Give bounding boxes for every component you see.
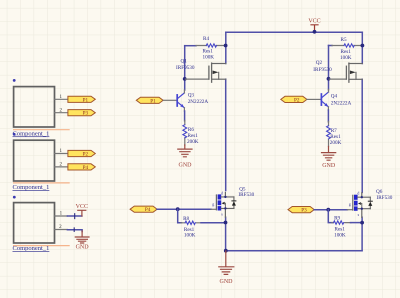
wire right vertical upper [361, 32, 363, 63]
wire U3 pin2 to GND [67, 230, 82, 232]
ground GND (U3) [75, 231, 89, 251]
wire left vertical lower [225, 217, 227, 251]
transistor Q4 [307, 90, 352, 111]
resistor R8 [181, 216, 202, 239]
wire left vertical mid [225, 79, 227, 190]
resistor R7 [327, 122, 342, 147]
resistor R6 [183, 121, 199, 146]
junction R4-right [224, 44, 228, 48]
junction R9-right [360, 221, 364, 225]
wire left vertical upper [225, 32, 227, 63]
wire R8 branch [178, 209, 182, 223]
svg-text:IRF530: IRF530 [238, 192, 254, 198]
svg-text:GND: GND [220, 279, 234, 285]
svg-text:d: d [357, 191, 359, 196]
wire Q4 collector column [328, 46, 330, 90]
ground GND (bottom) [219, 249, 234, 285]
svg-text:200K: 200K [187, 139, 199, 145]
junction R5-right [361, 44, 365, 48]
wire U3 pin1 to VCC [67, 215, 82, 217]
svg-text:Component_1: Component_1 [13, 184, 50, 191]
svg-text:Q4: Q4 [331, 94, 338, 100]
svg-text:g: g [349, 202, 351, 207]
transistor Q6 [347, 189, 392, 218]
svg-text:100K: 100K [184, 233, 196, 239]
wire Q4 emitter [327, 110, 329, 122]
pin end tick 1 [74, 214, 76, 219]
svg-text:VCC: VCC [308, 19, 320, 25]
svg-text:P1: P1 [150, 98, 156, 104]
svg-text:P2: P2 [294, 97, 300, 103]
wire bottom rail [226, 250, 362, 252]
svg-text:100K: 100K [340, 55, 352, 61]
svg-text:P3: P3 [83, 111, 89, 117]
wire Q3 emitter [184, 111, 186, 121]
transistor Q1 [176, 58, 226, 82]
component U2 box [13, 133, 70, 191]
wire P4 to gate [157, 208, 211, 210]
power port VCC top [308, 19, 320, 34]
svg-text:IRF9530: IRF9530 [176, 65, 195, 71]
transistor Q2 [313, 60, 362, 82]
svg-text:R9: R9 [334, 216, 340, 222]
svg-text:IRF9530: IRF9530 [313, 67, 332, 73]
svg-text:100K: 100K [203, 54, 215, 60]
resistor R4 [185, 36, 226, 60]
svg-text:R8: R8 [183, 216, 189, 222]
component U1 box [13, 79, 70, 137]
junction P4 [176, 207, 180, 211]
svg-text:100K: 100K [334, 232, 346, 238]
pin end tick 2 [73, 228, 75, 232]
svg-text:Q1: Q1 [181, 58, 188, 64]
port P3 [288, 207, 314, 214]
svg-text:Component_1: Component_1 [13, 245, 50, 252]
wire top rail [226, 31, 362, 33]
svg-text:Q2: Q2 [316, 60, 323, 66]
svg-text:P2: P2 [83, 152, 89, 158]
wire right vertical mid [361, 79, 363, 192]
resistor R9 [332, 216, 351, 239]
ground GND (R6) [178, 145, 192, 169]
svg-text:P1: P1 [83, 97, 89, 103]
svg-text:P3: P3 [301, 208, 307, 214]
component U3 box [13, 196, 70, 252]
svg-text:Q3: Q3 [188, 92, 195, 98]
junction Q2 gate [327, 77, 331, 81]
svg-text:d: d [221, 190, 223, 195]
svg-text:R5: R5 [341, 37, 347, 43]
junction P3 [326, 208, 330, 212]
svg-text:200K: 200K [330, 140, 342, 146]
junction Q1 gate [183, 77, 187, 81]
svg-text:GND: GND [322, 163, 336, 169]
svg-text:GND: GND [179, 163, 193, 169]
power port VCC (U3) [76, 204, 88, 216]
svg-text:P4: P4 [83, 165, 89, 171]
wire R8 to source column [201, 222, 226, 224]
svg-text:Component_1: Component_1 [13, 130, 50, 137]
port P2 [281, 96, 307, 103]
wire Q3 collector column [184, 46, 186, 90]
svg-text:P4: P4 [145, 207, 151, 213]
port P3 (box) [68, 110, 95, 117]
wire Q1 gate lead [186, 78, 209, 80]
svg-text:2N2222A: 2N2222A [188, 99, 209, 105]
wire P3 to gate [314, 209, 347, 211]
svg-text:g: g [212, 201, 214, 206]
svg-text:GND: GND [76, 245, 90, 251]
wire right vertical lower [361, 217, 363, 251]
port P4 (box) [68, 164, 95, 171]
wire R9 to source column [351, 222, 363, 224]
wire Q2 gate lead [329, 78, 346, 80]
transistor Q5 [211, 186, 255, 217]
svg-text:VCC: VCC [76, 204, 88, 210]
transistor Q3 [163, 90, 208, 111]
ground GND (R7) [322, 147, 336, 170]
port P2 (box) [68, 150, 95, 157]
port P4 [130, 206, 157, 213]
wire R9 branch [328, 210, 332, 223]
resistor R5 [329, 37, 363, 61]
port P1 (mid) [136, 97, 163, 104]
svg-text:IRF530: IRF530 [377, 195, 393, 201]
junction R8-right [224, 221, 228, 225]
port P1 (box) [68, 96, 95, 103]
svg-text:2N2222A: 2N2222A [331, 101, 352, 107]
svg-text:R4: R4 [203, 36, 209, 42]
